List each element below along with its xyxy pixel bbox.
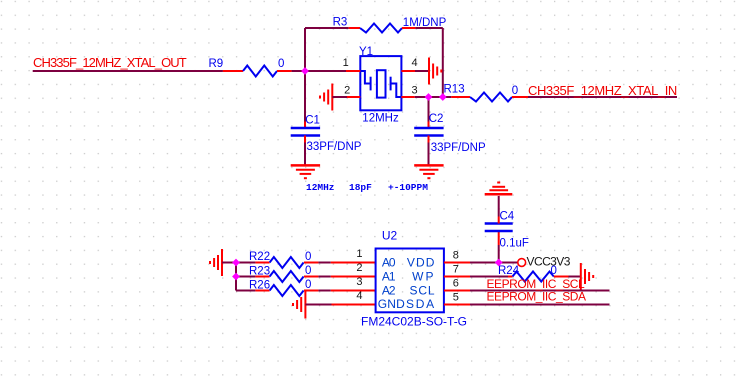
ground left of R22: [210, 249, 222, 276]
wire + pin 3 lead: [318, 290, 330, 292]
ground above C4: [485, 183, 513, 195]
capacitor C1: [291, 115, 362, 154]
svg-text:2: 2: [344, 85, 350, 97]
pin 1: [305, 70, 346, 72]
wire net XTAL_OUT: [33, 70, 223, 72]
wire C4 column: [498, 245, 500, 263]
capacitor C2: [414, 113, 486, 154]
svg-text:CH335F_12MHZ_XTAL_OUT: CH335F_12MHZ_XTAL_OUT: [33, 55, 187, 70]
resistor R26: [236, 279, 318, 296]
ground at pin 2: [320, 84, 332, 111]
pin 8: [444, 262, 470, 264]
svg-text:6: 6: [453, 278, 459, 290]
svg-text:0: 0: [305, 265, 311, 277]
wire net XTAL_IN: [528, 96, 677, 98]
svg-text:WP: WP: [412, 270, 435, 284]
resistor R13: [444, 84, 529, 102]
node E junction: [232, 273, 240, 281]
svg-text:U2: U2: [382, 229, 398, 243]
svg-text:A0: A0: [382, 256, 396, 270]
resistor R9: [209, 58, 292, 77]
svg-text:+-10PPM: +-10PPM: [388, 182, 428, 193]
svg-text:12MHz: 12MHz: [306, 182, 335, 193]
svg-text:A1: A1: [382, 270, 396, 284]
wire C2 column: [428, 97, 430, 122]
svg-text:R22: R22: [249, 251, 270, 263]
svg-text:4: 4: [412, 57, 418, 69]
svg-text:1: 1: [356, 248, 362, 260]
svg-text:33PF/DNP: 33PF/DNP: [307, 141, 362, 153]
svg-text:0: 0: [305, 279, 311, 291]
pin 7: [444, 276, 470, 278]
svg-text:SDA: SDA: [406, 297, 436, 311]
wire to node A: [292, 70, 305, 72]
node D junction: [232, 259, 240, 267]
svg-text:1: 1: [343, 57, 349, 69]
ground below C2: [414, 165, 443, 178]
svg-text:0.1uF: 0.1uF: [500, 238, 529, 250]
wire vertical left column: [304, 28, 306, 122]
pin 4: [401, 70, 415, 72]
svg-text:C2: C2: [429, 113, 444, 125]
svg-text:8: 8: [453, 250, 459, 262]
svg-text:3: 3: [356, 276, 362, 288]
resistor R3: [333, 16, 447, 32]
svg-text:EEPROM_IIC_SDA: EEPROM_IIC_SDA: [487, 290, 587, 304]
wire vertical right column: [442, 28, 444, 97]
svg-text:18pF: 18pF: [349, 182, 372, 193]
power port VCC3V3: [518, 259, 526, 267]
node C junction: [439, 93, 447, 101]
svg-text:A2: A2: [382, 284, 396, 298]
svg-text:R13: R13: [444, 84, 465, 96]
svg-text:GND: GND: [378, 297, 405, 311]
svg-text:7: 7: [453, 264, 459, 276]
node B junction: [425, 93, 433, 101]
IC U2: [361, 229, 467, 329]
wire R24 to ground: [569, 276, 581, 278]
wire net SDA: [470, 304, 610, 306]
wire node C to R13: [443, 96, 452, 98]
wire C1 to ground: [304, 143, 306, 166]
svg-text:5: 5: [453, 292, 459, 304]
svg-text:R24: R24: [498, 265, 520, 277]
wire ground to node D: [222, 262, 236, 264]
wire vertical bus: [235, 263, 237, 291]
pin 2: [332, 96, 347, 98]
svg-text:Y1: Y1: [359, 46, 373, 58]
wire R3 to right column: [415, 27, 442, 29]
svg-text:SCL: SCL: [409, 284, 435, 298]
resistor R24: [498, 265, 569, 282]
svg-text:VDD: VDD: [407, 256, 436, 270]
wire C2 to ground: [428, 143, 430, 166]
svg-text:0: 0: [512, 85, 518, 97]
ground at pin 4: [429, 58, 441, 85]
svg-text:CH335F_12MHZ_XTAL_IN: CH335F_12MHZ_XTAL_IN: [528, 83, 677, 98]
wire + pin 4 lead: [305, 304, 331, 306]
wire pin7 to R24: [470, 276, 508, 278]
svg-text:R23: R23: [249, 265, 270, 277]
pin 5: [444, 304, 470, 306]
svg-text:R3: R3: [333, 16, 348, 28]
svg-text:0: 0: [551, 265, 557, 277]
ground below C1: [291, 165, 320, 178]
svg-text:R9: R9: [209, 58, 224, 70]
node F junction: [495, 259, 503, 267]
svg-text:12MHz: 12MHz: [362, 113, 399, 125]
capacitor C4: [485, 211, 529, 250]
resistor R22: [236, 251, 318, 268]
wire net SCL: [470, 290, 610, 292]
crystal U-body Y1: [359, 46, 401, 125]
pin 6: [444, 290, 470, 292]
resistor R23: [236, 265, 318, 282]
svg-text:C4: C4: [500, 211, 515, 223]
svg-text:33PF/DNP: 33PF/DNP: [431, 142, 486, 154]
svg-text:C1: C1: [305, 115, 320, 127]
wire pin8 to VCC: [470, 262, 518, 264]
pin 3: [401, 96, 414, 98]
svg-text:FM24C02B-SO-T-G: FM24C02B-SO-T-G: [361, 315, 467, 329]
wire + pin 2 lead: [318, 276, 330, 278]
wire + pin 1 lead: [318, 262, 330, 264]
svg-text:3: 3: [412, 85, 418, 97]
wire C4 to ground: [498, 196, 500, 217]
ground right of R24: [581, 263, 593, 290]
svg-text:2: 2: [356, 262, 362, 274]
ground at U2 pin 4: [293, 291, 305, 319]
svg-text:0: 0: [278, 58, 284, 70]
svg-text:R26: R26: [249, 279, 270, 291]
svg-text:VCC3V3: VCC3V3: [527, 255, 571, 269]
wire top to R3: [305, 27, 349, 29]
svg-text:4: 4: [356, 290, 362, 302]
node A junction: [301, 67, 309, 75]
svg-text:0: 0: [305, 251, 311, 263]
